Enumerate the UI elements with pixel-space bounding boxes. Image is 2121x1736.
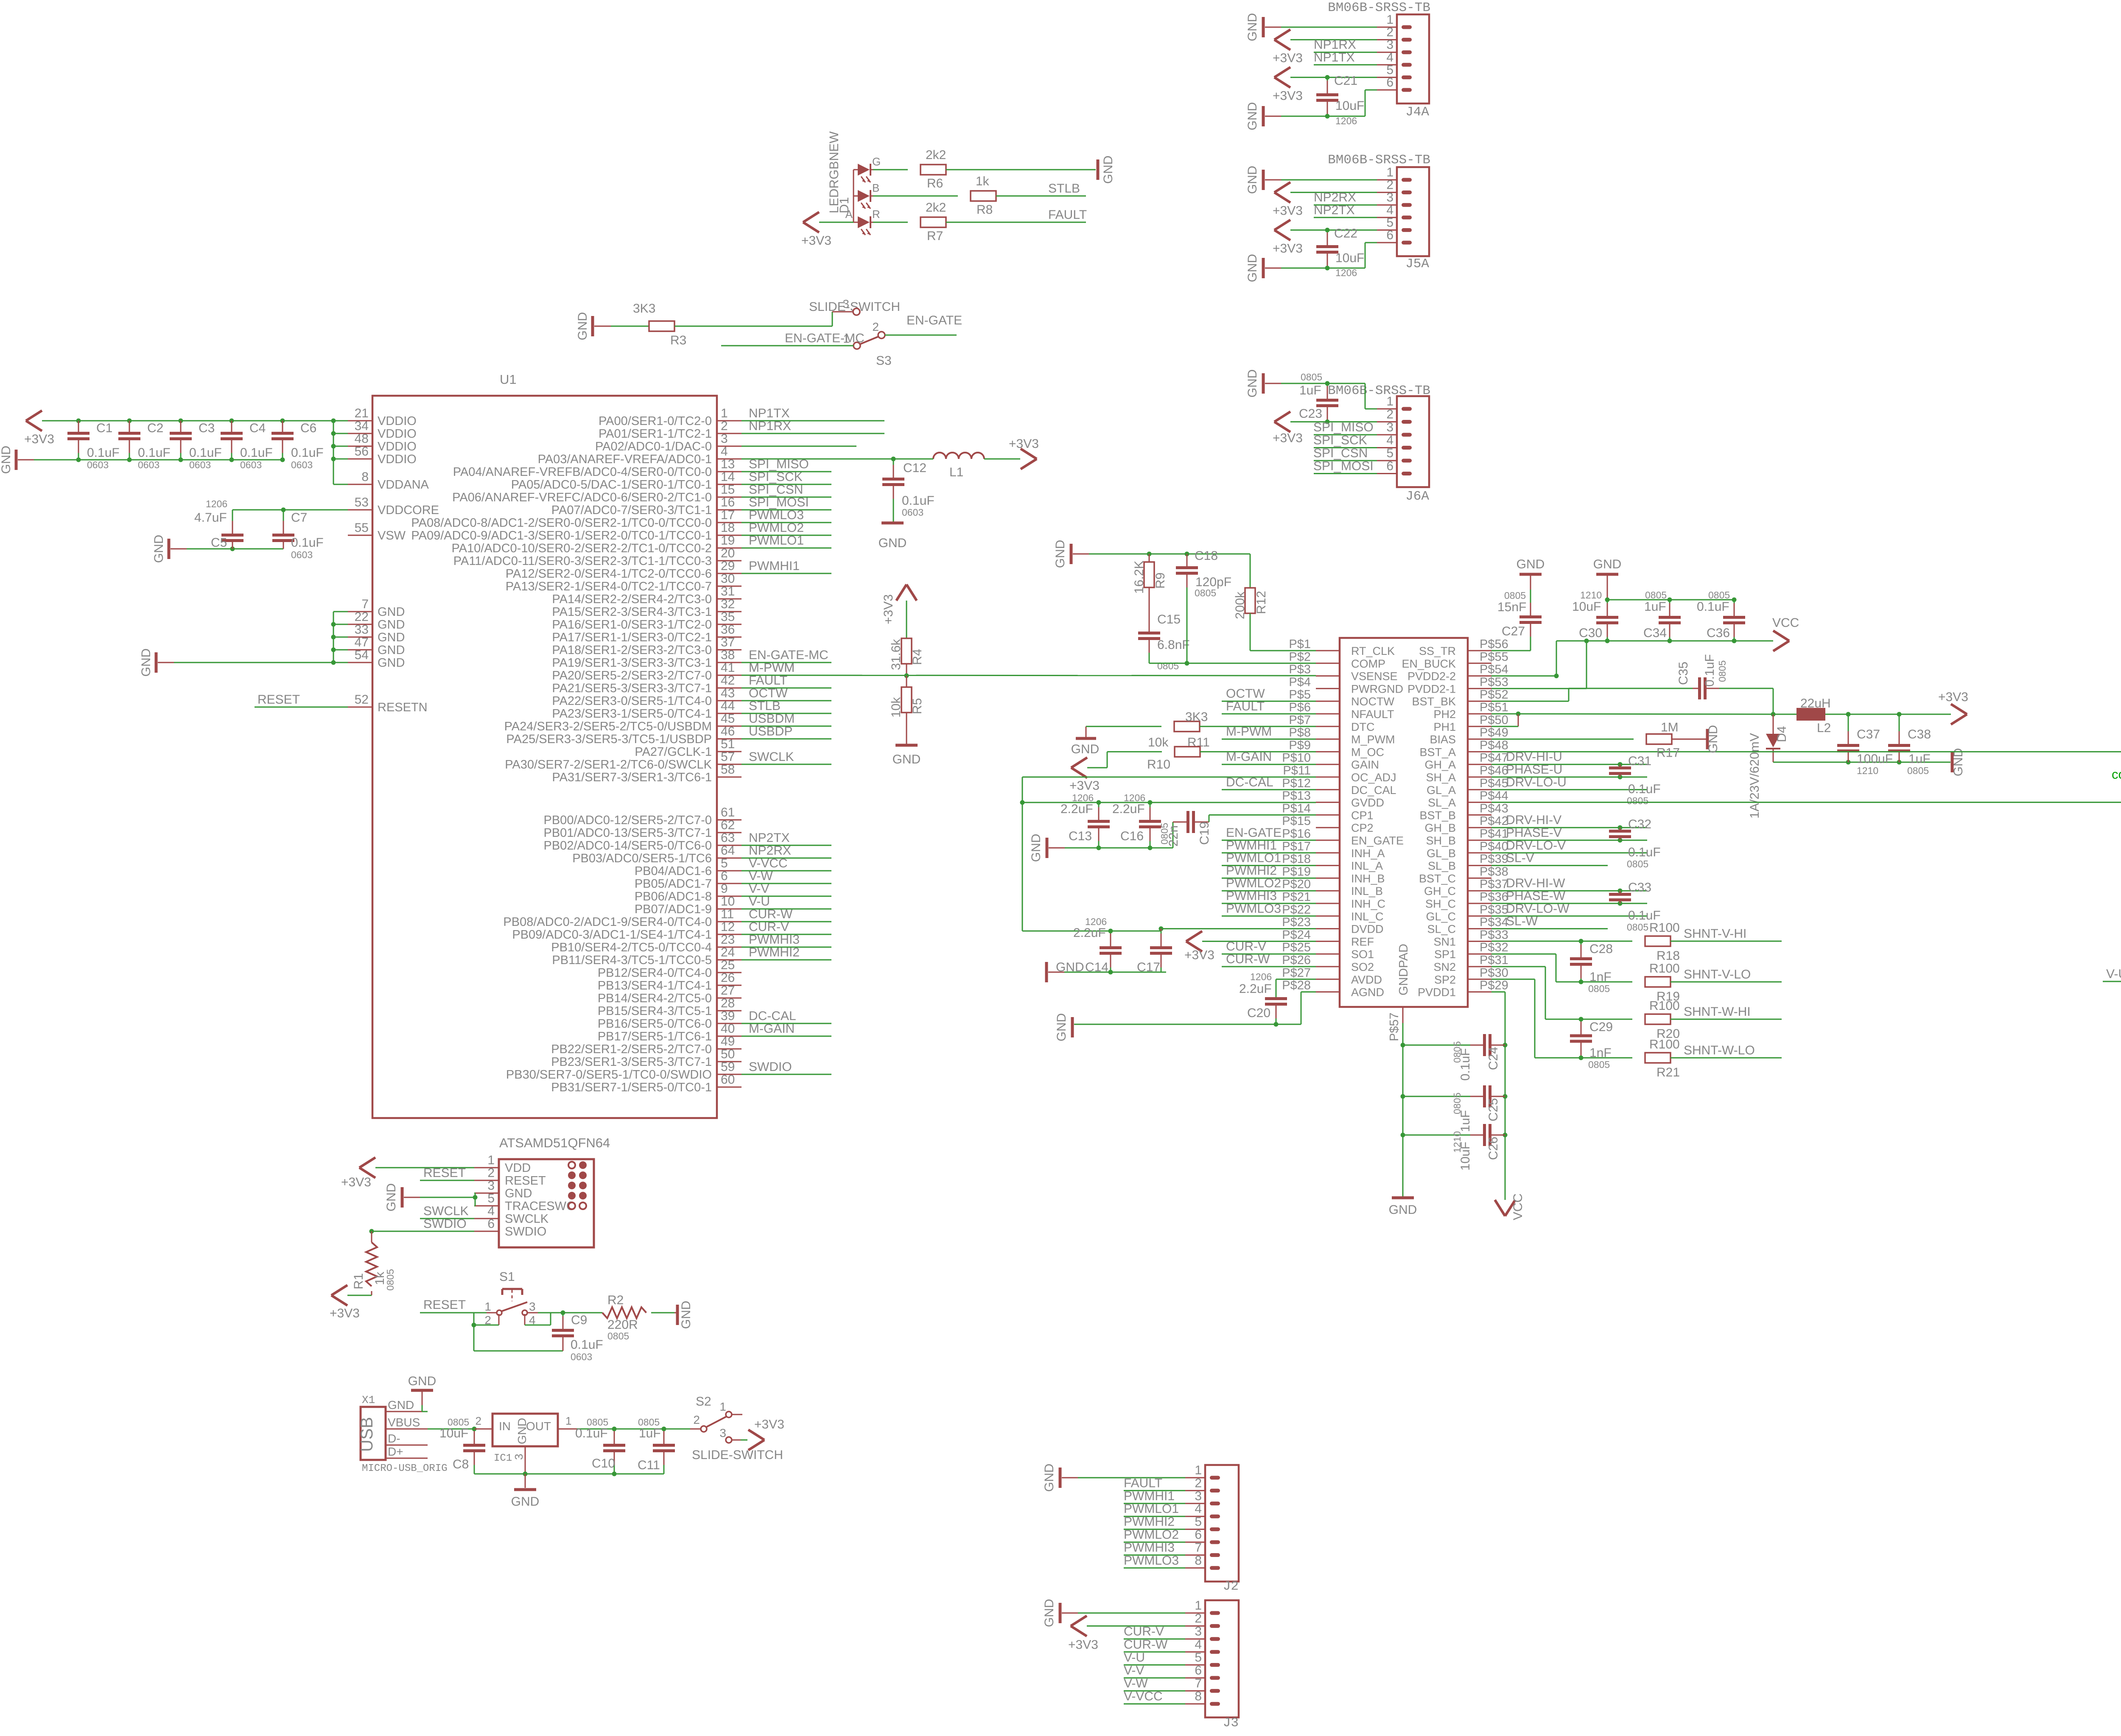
svg-text:P$39: P$39 (1480, 853, 1508, 866)
svg-text:PA10/ADC0-10/SER0-2/SER2-2/TC1: PA10/ADC0-10/SER0-2/SER2-2/TC1-0/TCC0-2 (451, 542, 712, 555)
svg-text:RESET: RESET (257, 693, 300, 707)
svg-text:R7: R7 (927, 229, 943, 243)
svg-text:P$48: P$48 (1480, 738, 1508, 752)
svg-text:43: 43 (721, 686, 735, 700)
svg-text:CUR-V: CUR-V (1124, 1624, 1164, 1638)
svg-text:P$38: P$38 (1480, 865, 1508, 878)
svg-text:2: 2 (1386, 408, 1393, 422)
svg-text:V-U: V-U (749, 895, 770, 909)
svg-text:PB15/SER4-3/TC5-1: PB15/SER4-3/TC5-1 (598, 1004, 712, 1018)
svg-text:SP1: SP1 (1434, 948, 1456, 961)
svg-text:CP2: CP2 (1351, 822, 1374, 834)
svg-text:33: 33 (355, 623, 369, 637)
svg-text:0.1uF: 0.1uF (1628, 782, 1661, 796)
svg-text:C23: C23 (1299, 407, 1322, 421)
svg-text:C24: C24 (1486, 1047, 1500, 1070)
svg-text:28: 28 (721, 996, 735, 1010)
svg-text:P$15: P$15 (1282, 814, 1311, 828)
svg-text:C36: C36 (1707, 626, 1730, 640)
svg-text:50: 50 (721, 1047, 735, 1061)
svg-text:SN2: SN2 (1433, 961, 1456, 973)
svg-text:53: 53 (355, 495, 369, 509)
svg-text:C29: C29 (1589, 1020, 1613, 1034)
svg-text:P$31: P$31 (1480, 953, 1508, 967)
svg-text:60: 60 (721, 1073, 735, 1087)
svg-text:PWMLO3: PWMLO3 (749, 508, 804, 522)
svg-text:PWMLO2: PWMLO2 (1226, 876, 1281, 890)
svg-text:P$12: P$12 (1282, 777, 1311, 790)
svg-text:+3V3: +3V3 (1273, 51, 1303, 65)
svg-text:2k2: 2k2 (926, 148, 946, 162)
svg-text:2: 2 (1195, 1612, 1202, 1626)
svg-text:0.1uF: 0.1uF (1697, 600, 1729, 614)
svg-text:P$35: P$35 (1480, 903, 1508, 917)
svg-text:IN: IN (499, 1420, 511, 1433)
svg-text:FAULT: FAULT (1048, 208, 1087, 222)
svg-text:SL-V: SL-V (1506, 851, 1534, 865)
svg-text:PB08/ADC0-2/ADC1-9/SER4-0/TC4-: PB08/ADC0-2/ADC1-9/SER4-0/TC4-0 (503, 915, 712, 929)
svg-text:VDDCORE: VDDCORE (378, 503, 439, 517)
svg-text:RESET: RESET (423, 1166, 466, 1180)
svg-text:PWMHI3: PWMHI3 (749, 933, 800, 947)
svg-text:PA23/SER3-1/SER5-0/TC4-1: PA23/SER3-1/SER5-0/TC4-1 (552, 707, 712, 721)
svg-text:47: 47 (355, 635, 369, 649)
svg-text:0805: 0805 (1588, 1059, 1610, 1070)
svg-text:C13: C13 (1069, 829, 1092, 843)
svg-text:CUR-W: CUR-W (1124, 1638, 1168, 1652)
svg-text:17: 17 (721, 508, 735, 522)
svg-text:VDDANA: VDDANA (378, 478, 429, 492)
svg-text:C6: C6 (300, 421, 316, 435)
svg-text:44: 44 (721, 699, 735, 713)
svg-text:ATSAMD51QFN64: ATSAMD51QFN64 (499, 1135, 610, 1150)
svg-text:GND: GND (378, 643, 405, 657)
svg-text:SH_C: SH_C (1425, 897, 1456, 910)
svg-text:PA14/SER2-2/SER4-2/TC3-0: PA14/SER2-2/SER4-2/TC3-0 (552, 593, 712, 606)
svg-text:V-VCC: V-VCC (1124, 1689, 1163, 1703)
svg-text:PH2: PH2 (1433, 708, 1456, 721)
svg-text:56: 56 (355, 444, 369, 458)
svg-text:64: 64 (721, 844, 735, 858)
svg-text:7: 7 (361, 597, 369, 611)
svg-text:R100: R100 (1649, 921, 1680, 935)
svg-text:R8: R8 (977, 203, 993, 217)
svg-text:GND: GND (0, 446, 13, 474)
svg-text:PB12/SER4-0/TC4-0: PB12/SER4-0/TC4-0 (598, 966, 712, 980)
svg-text:SWCLK: SWCLK (749, 750, 794, 764)
svg-text:AGND: AGND (1351, 986, 1384, 999)
svg-text:PA09/ADC0-9/ADC1-3/SER0-1/SER2: PA09/ADC0-9/ADC1-3/SER0-1/SER2-0/TC0-1/T… (411, 529, 712, 542)
svg-text:P$42: P$42 (1480, 814, 1508, 828)
svg-text:GND: GND (1071, 742, 1100, 756)
svg-text:USB: USB (358, 1417, 376, 1452)
svg-text:V-W: V-W (749, 869, 773, 883)
svg-text:23: 23 (721, 933, 735, 947)
svg-text:EN-GATE-MC: EN-GATE-MC (749, 648, 828, 662)
svg-text:SO1: SO1 (1351, 948, 1374, 961)
svg-text:2: 2 (487, 1166, 495, 1180)
svg-text:C35: C35 (1676, 662, 1690, 685)
svg-text:5: 5 (1386, 215, 1393, 229)
svg-text:DC-CAL: DC-CAL (1226, 775, 1273, 789)
svg-text:CUR-W: CUR-W (749, 907, 793, 921)
svg-text:10uF: 10uF (1335, 251, 1364, 265)
svg-text:D-: D- (388, 1432, 400, 1445)
svg-text:57: 57 (721, 750, 735, 764)
svg-text:SPI_CSN: SPI_CSN (1313, 446, 1368, 460)
svg-text:6: 6 (487, 1217, 495, 1231)
svg-text:J2: J2 (1223, 1579, 1239, 1594)
svg-text:+3V3: +3V3 (24, 432, 54, 446)
svg-text:C30: C30 (1579, 626, 1602, 640)
svg-text:VDDIO: VDDIO (378, 453, 417, 466)
svg-text:CUR-V: CUR-V (749, 920, 789, 934)
svg-text:P$10: P$10 (1282, 751, 1311, 765)
svg-text:5: 5 (1195, 1650, 1202, 1664)
svg-text:0.1uF: 0.1uF (1458, 1048, 1472, 1081)
svg-text:1uF: 1uF (1644, 600, 1666, 614)
svg-text:PA13/SER2-1/SER4-0/TC2-1/TCC0-: PA13/SER2-1/SER4-0/TC2-1/TCC0-7 (506, 580, 712, 593)
svg-text:3: 3 (721, 432, 728, 446)
svg-text:OUT: OUT (526, 1420, 551, 1433)
svg-text:24: 24 (721, 945, 735, 959)
svg-text:SPI_SCK: SPI_SCK (749, 470, 803, 484)
svg-text:C10: C10 (592, 1456, 615, 1470)
svg-text:31: 31 (721, 584, 735, 598)
svg-text:37: 37 (721, 635, 735, 649)
svg-text:C15: C15 (1157, 612, 1181, 626)
svg-text:SPI_MOSI: SPI_MOSI (1313, 459, 1374, 473)
svg-text:0.1uF: 0.1uF (1703, 654, 1717, 687)
svg-text:NP1TX: NP1TX (1314, 50, 1355, 64)
svg-text:GND: GND (1593, 557, 1622, 571)
svg-text:C4: C4 (249, 421, 266, 435)
svg-text:GND: GND (679, 1301, 693, 1329)
svg-text:P$21: P$21 (1282, 890, 1311, 904)
svg-text:DRV-HI-W: DRV-HI-W (1506, 876, 1565, 890)
svg-text:INH_B: INH_B (1351, 872, 1385, 885)
svg-text:0.1uF: 0.1uF (291, 446, 324, 460)
svg-text:32: 32 (721, 597, 735, 611)
svg-text:10uF: 10uF (1572, 600, 1601, 614)
svg-text:DVDD: DVDD (1351, 923, 1384, 936)
svg-text:R100: R100 (1649, 962, 1680, 976)
svg-text:+3V3: +3V3 (1068, 1638, 1098, 1652)
svg-text:1A/23V/620mV: 1A/23V/620mV (1748, 733, 1762, 819)
svg-text:PWMHI2: PWMHI2 (749, 945, 800, 959)
svg-text:0.1uF: 0.1uF (240, 446, 273, 460)
svg-text:VCC: VCC (1772, 616, 1799, 630)
svg-text:1uF: 1uF (1299, 383, 1321, 397)
svg-text:26: 26 (721, 971, 735, 985)
svg-text:9: 9 (721, 882, 728, 896)
svg-text:P$25: P$25 (1282, 941, 1311, 954)
svg-text:PA30/SER7-2/SER1-2/TC6-0/SWCLK: PA30/SER7-2/SER1-2/TC6-0/SWCLK (505, 758, 712, 772)
svg-text:R21: R21 (1657, 1065, 1680, 1079)
svg-text:P$33: P$33 (1480, 928, 1508, 942)
svg-text:C26: C26 (1486, 1137, 1500, 1160)
svg-text:3: 3 (842, 297, 849, 310)
svg-text:4.7uF: 4.7uF (194, 511, 227, 525)
svg-text:SWDIO: SWDIO (505, 1225, 546, 1238)
svg-text:38: 38 (721, 648, 735, 662)
svg-text:P$51: P$51 (1480, 701, 1508, 714)
svg-text:SN1: SN1 (1433, 935, 1456, 948)
svg-text:49: 49 (721, 1034, 735, 1048)
svg-text:SHNT-V-HI: SHNT-V-HI (1684, 927, 1746, 941)
svg-text:RT_CLK: RT_CLK (1351, 645, 1395, 657)
svg-text:P$45: P$45 (1480, 777, 1508, 790)
svg-text:C33: C33 (1628, 881, 1651, 895)
svg-text:PA25/SER3-3/SER5-3/TC5-1/USBDP: PA25/SER3-3/SER5-3/TC5-1/USBDP (506, 732, 712, 746)
svg-text:P$30: P$30 (1480, 966, 1508, 980)
svg-text:3: 3 (719, 1426, 726, 1440)
svg-text:5: 5 (1195, 1515, 1202, 1529)
svg-text:1: 1 (721, 406, 728, 420)
svg-text:0.1uF: 0.1uF (902, 494, 935, 508)
svg-text:GND: GND (1042, 1464, 1056, 1492)
svg-text:4: 4 (1195, 1502, 1202, 1516)
svg-text:12: 12 (721, 920, 735, 934)
svg-text:PH1: PH1 (1433, 721, 1456, 733)
svg-text:S1: S1 (499, 1270, 515, 1284)
svg-text:0805: 0805 (1627, 858, 1648, 869)
svg-text:PWMLO1: PWMLO1 (1226, 851, 1281, 865)
svg-text:40: 40 (721, 1022, 735, 1036)
svg-text:OCTW: OCTW (1226, 687, 1265, 701)
svg-text:P$50: P$50 (1480, 713, 1508, 727)
svg-text:GH_A: GH_A (1424, 758, 1456, 771)
svg-text:U1: U1 (500, 372, 517, 387)
svg-text:P$41: P$41 (1480, 827, 1508, 841)
svg-text:GND: GND (1101, 156, 1115, 184)
svg-text:SHNT-W-HI: SHNT-W-HI (1684, 1005, 1751, 1019)
svg-text:C5: C5 (211, 536, 227, 550)
svg-text:0805: 0805 (1645, 590, 1667, 601)
svg-text:PB07/ADC1-9: PB07/ADC1-9 (635, 903, 712, 916)
svg-text:C20: C20 (1247, 1006, 1270, 1020)
svg-text:SL-W: SL-W (1506, 914, 1538, 928)
svg-text:GND: GND (1245, 166, 1259, 194)
svg-text:MICRO-USB_ORIG: MICRO-USB_ORIG (362, 1463, 448, 1474)
svg-text:0805: 0805 (1301, 372, 1322, 383)
svg-text:GH_C: GH_C (1424, 885, 1456, 897)
svg-text:PWMLO3: PWMLO3 (1124, 1554, 1179, 1568)
svg-text:EN_GATE: EN_GATE (1351, 834, 1404, 847)
svg-text:PA06/ANAREF-VREFC/ADC0-6/SER0-: PA06/ANAREF-VREFC/ADC0-6/SER0-2/TC1-0 (452, 491, 712, 504)
svg-text:0805: 0805 (1588, 983, 1610, 994)
svg-text:2: 2 (693, 1413, 700, 1426)
svg-text:SHNT-W-LO: SHNT-W-LO (1684, 1043, 1755, 1057)
svg-text:4: 4 (1195, 1638, 1202, 1652)
svg-text:V-V: V-V (749, 882, 769, 896)
svg-text:CUR-W: CUR-W (1226, 952, 1270, 966)
svg-text:EN-GATE-MC: EN-GATE-MC (785, 331, 865, 345)
svg-text:1206: 1206 (206, 498, 227, 509)
svg-text:R100: R100 (1649, 1037, 1680, 1051)
svg-text:NFAULT: NFAULT (1351, 708, 1394, 721)
svg-text:P$55: P$55 (1480, 650, 1508, 664)
svg-text:GND: GND (384, 1183, 398, 1212)
svg-text:48: 48 (355, 432, 369, 446)
svg-text:FAULT: FAULT (1124, 1476, 1162, 1490)
svg-text:PB05/ADC1-7: PB05/ADC1-7 (635, 877, 712, 891)
svg-text:GL_C: GL_C (1426, 910, 1456, 923)
svg-text:R1: R1 (352, 1273, 366, 1289)
svg-text:0.1uF: 0.1uF (571, 1338, 603, 1352)
svg-text:27: 27 (721, 984, 735, 998)
svg-text:GND: GND (1245, 102, 1259, 131)
svg-text:2: 2 (484, 1314, 491, 1327)
svg-text:V-W: V-W (1124, 1677, 1148, 1691)
svg-text:INH_A: INH_A (1351, 847, 1385, 860)
svg-text:V-U: V-U (1124, 1650, 1145, 1664)
svg-text:R100: R100 (1649, 999, 1680, 1013)
svg-text:GND: GND (378, 656, 405, 670)
svg-text:GND: GND (152, 535, 166, 563)
svg-text:19: 19 (721, 534, 735, 548)
svg-text:0.1uF: 0.1uF (575, 1426, 608, 1440)
svg-text:GND: GND (378, 605, 405, 619)
svg-text:DRV-LO-V: DRV-LO-V (1506, 839, 1566, 853)
svg-text:NP1RX: NP1RX (1314, 38, 1356, 52)
svg-text:PB03/ADC0/SER5-1/TC6: PB03/ADC0/SER5-1/TC6 (572, 852, 712, 865)
svg-text:connect to SL_U on DRV: connect to SL_U on DRV (2112, 767, 2121, 782)
svg-text:USBDM: USBDM (749, 712, 795, 726)
svg-text:29: 29 (721, 559, 735, 573)
svg-text:5: 5 (1386, 446, 1393, 460)
svg-text:4: 4 (1386, 203, 1393, 217)
svg-text:8: 8 (1195, 1554, 1202, 1568)
svg-text:BM06B-SRSS-TB: BM06B-SRSS-TB (1328, 383, 1430, 398)
svg-text:PWMLO1: PWMLO1 (1124, 1502, 1179, 1516)
svg-text:J4A: J4A (1405, 105, 1429, 120)
svg-text:NOCTW: NOCTW (1351, 695, 1394, 708)
svg-text:PHASE-W: PHASE-W (1506, 889, 1566, 903)
svg-text:M_PWM: M_PWM (1351, 733, 1395, 746)
svg-text:P$37: P$37 (1480, 878, 1508, 891)
svg-text:PB14/SER4-2/TC5-0: PB14/SER4-2/TC5-0 (598, 992, 712, 1005)
svg-text:P$1: P$1 (1289, 637, 1311, 651)
svg-text:P$2: P$2 (1289, 650, 1311, 664)
svg-text:22: 22 (355, 610, 369, 624)
svg-text:M-PWM: M-PWM (749, 661, 795, 675)
svg-text:P$5: P$5 (1289, 688, 1311, 702)
svg-text:C34: C34 (1643, 626, 1667, 640)
svg-text:10: 10 (721, 895, 735, 909)
svg-text:NP2TX: NP2TX (749, 831, 790, 845)
svg-text:PWMHI3: PWMHI3 (1226, 889, 1277, 903)
svg-text:61: 61 (721, 805, 735, 819)
svg-text:0.1uF: 0.1uF (138, 446, 171, 460)
svg-text:PA05/ADC0-5/DAC-1/SER0-1/TC0-1: PA05/ADC0-5/DAC-1/SER0-1/TC0-1 (511, 478, 712, 492)
svg-text:PWMHI1: PWMHI1 (1226, 839, 1277, 853)
svg-text:0603: 0603 (189, 459, 211, 470)
svg-text:5: 5 (487, 1191, 495, 1205)
svg-text:P$56: P$56 (1480, 637, 1508, 651)
svg-text:P$40: P$40 (1480, 840, 1508, 853)
svg-text:PA19/SER1-3/SER3-3/TC3-1: PA19/SER1-3/SER3-3/TC3-1 (552, 656, 712, 670)
svg-text:PA00/SER1-0/TC2-0: PA00/SER1-0/TC2-0 (599, 414, 712, 428)
svg-text:C11: C11 (638, 1458, 660, 1472)
svg-text:0805: 0805 (1195, 587, 1216, 598)
svg-text:REF: REF (1351, 935, 1374, 948)
svg-text:220R: 220R (607, 1318, 638, 1332)
svg-text:3K3: 3K3 (633, 302, 655, 316)
svg-text:J6A: J6A (1405, 489, 1429, 504)
svg-text:P$46: P$46 (1480, 764, 1508, 777)
svg-text:35: 35 (721, 610, 735, 624)
svg-text:P$8: P$8 (1289, 726, 1311, 740)
svg-text:11: 11 (721, 907, 734, 921)
svg-text:1: 1 (719, 1400, 726, 1413)
svg-text:V-U: V-U (2106, 967, 2121, 981)
svg-text:18: 18 (721, 521, 735, 535)
svg-text:P$47: P$47 (1480, 751, 1508, 765)
svg-text:GND: GND (879, 536, 907, 550)
svg-text:INL_A: INL_A (1351, 860, 1383, 872)
svg-text:36: 36 (721, 623, 735, 637)
svg-text:15nF: 15nF (1497, 600, 1526, 614)
svg-text:S3: S3 (876, 354, 892, 368)
svg-text:C31: C31 (1628, 754, 1651, 768)
svg-text:GND: GND (1055, 1013, 1069, 1042)
svg-text:0.1uF: 0.1uF (1628, 845, 1661, 859)
svg-text:RESET: RESET (505, 1174, 546, 1188)
svg-text:1210: 1210 (1857, 765, 1878, 776)
svg-text:3: 3 (1195, 1624, 1202, 1638)
svg-text:0603: 0603 (291, 459, 313, 470)
svg-text:P$4: P$4 (1289, 675, 1311, 689)
svg-text:INL_B: INL_B (1351, 885, 1383, 897)
svg-text:6: 6 (1195, 1663, 1202, 1677)
svg-text:M_OC: M_OC (1351, 746, 1384, 758)
svg-text:10uF: 10uF (1335, 99, 1364, 113)
svg-text:GND: GND (511, 1495, 540, 1509)
svg-text:0805: 0805 (1907, 765, 1929, 776)
svg-text:VDDIO: VDDIO (378, 414, 417, 428)
svg-text:C19: C19 (1198, 822, 1212, 845)
svg-text:P$18: P$18 (1282, 853, 1311, 866)
svg-text:G: G (872, 155, 881, 168)
svg-text:25: 25 (721, 958, 735, 972)
svg-text:22uH: 22uH (1800, 696, 1831, 710)
svg-text:1: 1 (487, 1153, 495, 1167)
svg-text:2.2uF: 2.2uF (1073, 926, 1106, 940)
svg-text:R18: R18 (1657, 949, 1680, 963)
svg-text:PA01/SER1-1/TC2-1: PA01/SER1-1/TC2-1 (599, 427, 712, 441)
svg-text:R10: R10 (1147, 758, 1170, 772)
svg-text:C27: C27 (1502, 624, 1525, 638)
svg-text:D4: D4 (1775, 726, 1789, 742)
svg-text:C7: C7 (291, 511, 307, 525)
svg-text:1206: 1206 (1335, 115, 1357, 126)
svg-text:C22: C22 (1334, 226, 1357, 240)
svg-text:1: 1 (1195, 1599, 1202, 1613)
svg-text:P$29: P$29 (1480, 979, 1508, 992)
svg-text:B: B (872, 182, 879, 194)
svg-text:63: 63 (721, 831, 735, 845)
svg-text:RESET: RESET (423, 1298, 466, 1312)
svg-text:P$13: P$13 (1282, 789, 1311, 803)
svg-text:4: 4 (487, 1204, 495, 1218)
svg-text:C21: C21 (1334, 74, 1357, 88)
svg-text:GND: GND (1389, 1203, 1417, 1217)
svg-text:PVDD2-2: PVDD2-2 (1407, 670, 1456, 683)
svg-text:PB13/SER4-1/TC4-1: PB13/SER4-1/TC4-1 (598, 979, 712, 992)
svg-text:52: 52 (355, 693, 369, 707)
svg-text:PB02/ADC0-14/SER5-0/TC6-0: PB02/ADC0-14/SER5-0/TC6-0 (544, 839, 712, 853)
